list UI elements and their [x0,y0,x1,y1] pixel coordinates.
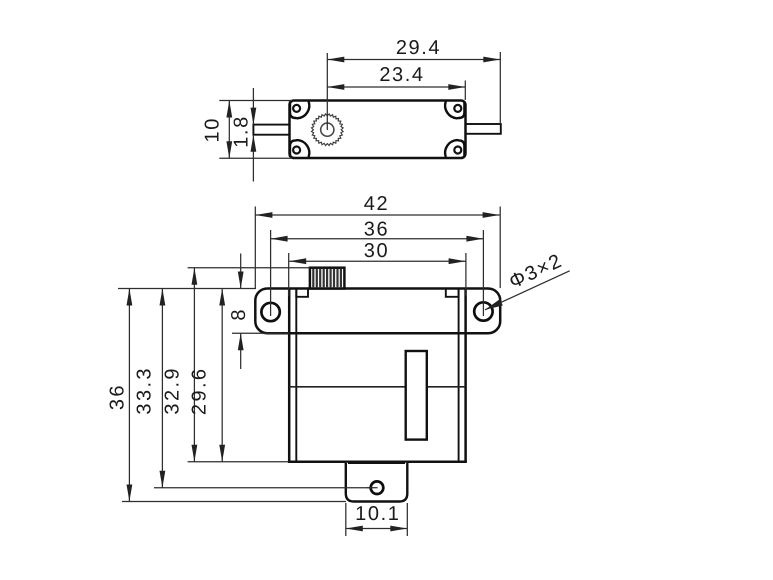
svg-text:1.8: 1.8 [231,115,253,148]
svg-text:33.3: 33.3 [133,366,155,415]
svg-text:8: 8 [228,308,250,321]
svg-text:36: 36 [364,218,389,240]
svg-text:10: 10 [201,117,223,142]
svg-text:30: 30 [364,240,389,262]
svg-text:36: 36 [107,383,129,410]
svg-text:29.4: 29.4 [396,37,441,59]
svg-text:42: 42 [364,193,389,215]
svg-text:10.1: 10.1 [355,503,400,525]
svg-text:32.9: 32.9 [162,366,184,415]
svg-text:29.6: 29.6 [189,367,211,416]
svg-text:23.4: 23.4 [379,64,424,86]
